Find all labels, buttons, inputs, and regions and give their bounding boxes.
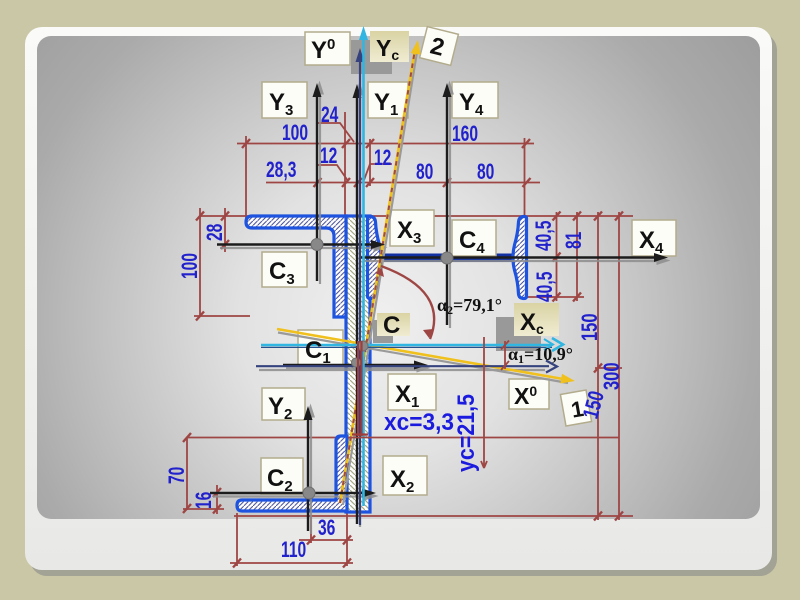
svg-text:160: 160 xyxy=(452,123,478,147)
svg-text:100: 100 xyxy=(282,122,308,146)
svg-text:12: 12 xyxy=(320,145,337,169)
svg-text:α2=79,1°: α2=79,1° xyxy=(437,295,502,317)
svg-text:24: 24 xyxy=(321,104,339,128)
svg-text:C: C xyxy=(383,312,400,339)
svg-text:80: 80 xyxy=(416,161,433,185)
svg-text:28: 28 xyxy=(204,223,228,241)
svg-text:36: 36 xyxy=(318,517,335,541)
svg-text:40,5: 40,5 xyxy=(533,220,557,251)
svg-text:150: 150 xyxy=(578,313,603,341)
svg-text:110: 110 xyxy=(281,539,306,563)
svg-text:12: 12 xyxy=(374,147,391,171)
svg-text:100: 100 xyxy=(179,253,203,279)
svg-text:28,3: 28,3 xyxy=(266,159,296,183)
svg-text:α1=10,9°: α1=10,9° xyxy=(508,344,573,366)
svg-text:81: 81 xyxy=(563,231,587,249)
svg-text:300: 300 xyxy=(600,362,625,390)
svg-text:70: 70 xyxy=(166,467,190,484)
svg-text:16: 16 xyxy=(193,492,217,509)
svg-text:xc=3,3: xc=3,3 xyxy=(384,409,454,436)
svg-text:yc=21,5: yc=21,5 xyxy=(453,394,480,472)
svg-text:40,5: 40,5 xyxy=(534,271,558,302)
svg-text:80: 80 xyxy=(477,161,494,185)
